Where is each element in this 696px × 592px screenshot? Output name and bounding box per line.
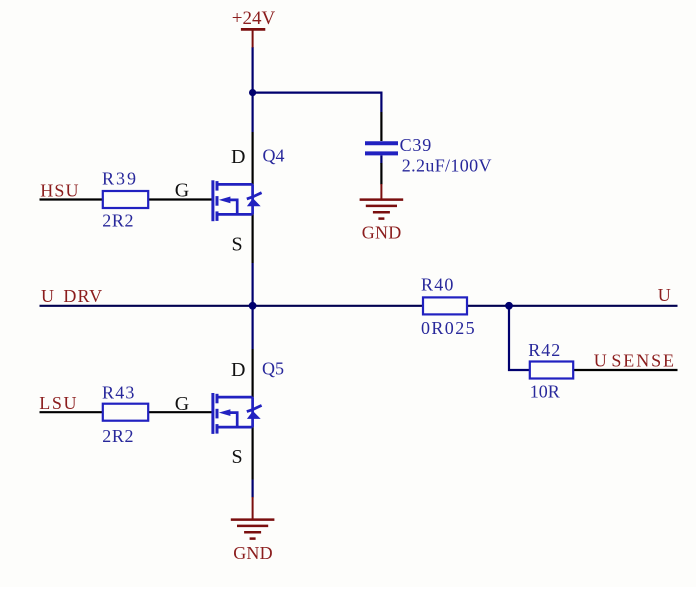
- svg-text:G: G: [175, 393, 189, 415]
- svg-text:R40: R40: [421, 275, 455, 295]
- svg-text:+24V: +24V: [232, 8, 276, 29]
- svg-text:Q4: Q4: [263, 146, 285, 166]
- svg-text:R42: R42: [528, 340, 561, 360]
- svg-text:10R: 10R: [530, 381, 560, 401]
- svg-text:G: G: [175, 179, 189, 201]
- svg-text:UDRV: UDRV: [41, 286, 103, 306]
- svg-text:U: U: [658, 285, 671, 305]
- svg-text:Q5: Q5: [262, 359, 284, 379]
- svg-text:0R025: 0R025: [421, 318, 476, 338]
- svg-text:D: D: [231, 359, 245, 381]
- svg-text:R39: R39: [102, 169, 138, 189]
- svg-text:GND: GND: [233, 543, 273, 563]
- svg-text:D: D: [231, 146, 245, 168]
- svg-text:S: S: [232, 234, 243, 256]
- svg-text:GND: GND: [362, 222, 402, 242]
- svg-text:2R2: 2R2: [102, 426, 134, 446]
- svg-text:S: S: [232, 446, 243, 468]
- svg-text:2R2: 2R2: [102, 210, 134, 230]
- svg-text:HSU: HSU: [40, 180, 79, 200]
- svg-text:LSU: LSU: [39, 393, 78, 413]
- svg-text:2.2uF/100V: 2.2uF/100V: [402, 155, 492, 175]
- svg-text:USENSE: USENSE: [594, 350, 676, 370]
- svg-text:C39: C39: [400, 135, 432, 155]
- svg-text:R43: R43: [102, 382, 136, 402]
